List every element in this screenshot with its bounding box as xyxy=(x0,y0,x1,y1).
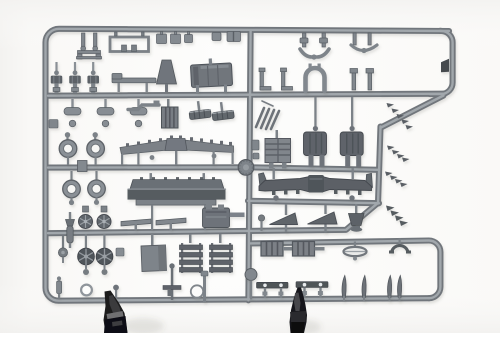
wheel ring 4 xyxy=(88,171,106,205)
row3: capsule bomb 1 xyxy=(64,99,81,127)
lamp cone part xyxy=(349,204,365,232)
engine block xyxy=(203,205,245,228)
row3: exhaust strip 2 xyxy=(211,101,234,121)
finned bomb part xyxy=(66,212,75,248)
square nut on runner xyxy=(78,161,88,172)
top row: three small boxes xyxy=(157,32,193,44)
row3: stick bundle right of runner xyxy=(256,108,279,129)
row3: capsule bomb 3 xyxy=(130,99,147,127)
seats row: small bits left xyxy=(252,140,259,159)
sprue gate triangle mark xyxy=(441,59,449,73)
white grommet ring xyxy=(81,285,92,296)
parts layer placeholder xyxy=(49,32,413,303)
row3: capsule bomb 2 xyxy=(97,99,114,127)
left-bar small tab xyxy=(49,120,58,129)
tailplane bar 2 xyxy=(156,218,186,231)
triangle flag 2 xyxy=(308,205,338,233)
row2: exhaust pipe assembly xyxy=(112,74,156,93)
row3: bent pipe xyxy=(128,105,159,110)
spoked wheel 2 xyxy=(96,234,113,275)
oval pill part xyxy=(344,242,367,261)
louver stack right xyxy=(210,234,233,273)
comb cluster 2 xyxy=(387,146,410,163)
louver stack left xyxy=(180,234,203,273)
seats row: dark seat left xyxy=(304,97,327,167)
comb cluster 1 xyxy=(387,103,414,130)
engine disc pair xyxy=(79,206,112,229)
row2: bomb 3 xyxy=(88,62,99,93)
plain post xyxy=(201,271,208,302)
lobe: post pair with wavy bracket A xyxy=(300,33,328,47)
ball post on bottom bar xyxy=(113,285,119,299)
propeller blade 2 xyxy=(362,276,366,302)
propeller blade 1 xyxy=(342,276,346,302)
triangle flag 1 xyxy=(270,204,298,232)
small disc part below runner4 xyxy=(58,236,67,263)
comb cluster 4 xyxy=(386,206,408,227)
wheel ring 2 xyxy=(87,132,105,165)
spoked wheel 1 xyxy=(78,234,95,275)
row2: leg bracket pair xyxy=(259,68,293,90)
wheel ring 1 xyxy=(59,132,77,165)
row3: ribbed radiator box xyxy=(162,99,179,128)
wing slab assembly xyxy=(128,173,226,230)
wing spar assembly xyxy=(120,136,234,166)
propeller blade 3 xyxy=(388,276,392,302)
seats row: dark seat right xyxy=(340,97,363,167)
row2: small pair D xyxy=(350,69,374,91)
clamp tool 1 xyxy=(104,291,128,334)
ribbed open box 2 xyxy=(293,242,325,257)
tailplane bar 1 xyxy=(121,219,151,231)
top row: windscreen frame part xyxy=(110,37,149,52)
lobe: post pair with arc bracket B xyxy=(353,33,371,45)
clamps layer placeholder xyxy=(104,288,322,335)
clamp tool 2 xyxy=(290,288,308,334)
wing center-section assembly xyxy=(259,168,373,201)
row2: bomb 1 xyxy=(51,62,62,93)
row2: curved cowl panel xyxy=(190,57,232,87)
bomb rack strip 2 xyxy=(296,282,328,298)
disc with stem near runner xyxy=(245,269,257,300)
top row: two small parts right xyxy=(212,32,241,42)
row2: arch frame part xyxy=(306,68,325,91)
propeller blade 4 xyxy=(398,276,402,302)
small bottle on bottom bar xyxy=(57,276,62,298)
comb cluster 3 xyxy=(385,172,408,188)
row2: bomb 2 xyxy=(70,62,81,93)
hook part xyxy=(389,239,411,254)
sprue frame highlight cores xyxy=(45,29,452,301)
clamp shadow 1 xyxy=(122,318,164,334)
gray square panel xyxy=(141,234,167,272)
white disc part xyxy=(191,285,203,297)
runner junction pad xyxy=(238,160,254,176)
antenna mast with tee base xyxy=(163,263,181,300)
sprue frame outer bars dark layer xyxy=(45,29,452,301)
row2: trapezoid bulkhead xyxy=(157,60,177,84)
ball post left of flags xyxy=(258,215,264,231)
wheel ring 3 xyxy=(63,171,81,205)
ribbed open box 1 xyxy=(261,242,293,257)
clamp shadow 2 xyxy=(291,320,321,334)
seats row: ribbed radiator 2 xyxy=(265,130,291,169)
row3: exhaust strip 1 xyxy=(188,100,211,120)
small bit between xyxy=(116,248,124,256)
top row: bracket cluster posts xyxy=(77,33,102,59)
bomb rack strip 1 xyxy=(257,282,289,298)
